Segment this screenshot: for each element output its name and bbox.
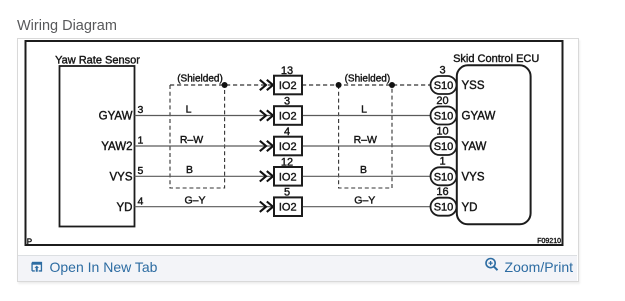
wire YAW right xyxy=(302,145,431,147)
svg-text:3: 3 xyxy=(439,64,445,76)
svg-text:3: 3 xyxy=(284,96,290,108)
svg-text:12: 12 xyxy=(281,156,293,168)
chevron arrows row 2 xyxy=(260,110,273,120)
svg-text:1: 1 xyxy=(439,156,445,168)
connector S10 row 5 xyxy=(431,186,457,216)
svg-text:R–W: R–W xyxy=(354,134,377,146)
connector S10 row 3 xyxy=(431,125,457,155)
page title xyxy=(17,18,117,35)
yaw rate sensor box xyxy=(60,66,135,227)
wire GYAW left xyxy=(135,115,275,117)
svg-text:10: 10 xyxy=(436,125,448,137)
svg-text:IO2: IO2 xyxy=(279,111,297,123)
svg-text:G–Y: G–Y xyxy=(184,195,205,207)
svg-text:4: 4 xyxy=(284,126,290,138)
wire YAW2 left xyxy=(135,145,275,147)
svg-text:B: B xyxy=(360,164,367,176)
wire shield row 1 dashed right segment xyxy=(302,84,431,86)
svg-text:(Shielded): (Shielded) xyxy=(177,74,223,85)
connector S10 row 4 xyxy=(431,156,457,186)
wire VYS right xyxy=(302,175,431,177)
connector IO2 row 1 xyxy=(274,65,302,94)
svg-text:YD: YD xyxy=(462,202,478,214)
connector IO2 row 4 xyxy=(274,156,302,185)
svg-text:4: 4 xyxy=(138,195,144,207)
wire shield row 1 dashed left segment xyxy=(170,84,274,86)
connector S10 row 2 xyxy=(431,95,457,125)
skid control ECU box xyxy=(457,65,531,224)
svg-text:S10: S10 xyxy=(434,141,454,153)
connector IO2 row 3 xyxy=(274,126,302,155)
svg-text:G–Y: G–Y xyxy=(354,195,375,207)
svg-text:Yaw Rate Sensor: Yaw Rate Sensor xyxy=(55,55,140,67)
svg-text:L: L xyxy=(361,103,367,115)
chevron arrows row 3 xyxy=(260,141,273,151)
junction dot right shield B xyxy=(389,82,395,88)
svg-text:GYAW: GYAW xyxy=(462,111,496,123)
chevron arrows row 5 xyxy=(260,202,273,212)
svg-text:IO2: IO2 xyxy=(279,80,297,92)
connector IO2 row 2 xyxy=(274,96,302,125)
svg-text:IO2: IO2 xyxy=(279,202,297,214)
svg-text:(Shielded): (Shielded) xyxy=(345,74,391,85)
shield dashed box left xyxy=(170,85,225,188)
wire VYS left xyxy=(135,175,275,177)
wire YD left xyxy=(135,206,275,208)
svg-text:R–W: R–W xyxy=(180,134,203,146)
svg-text:S10: S10 xyxy=(434,202,454,214)
svg-text:5: 5 xyxy=(284,187,290,199)
link Zoom/Print xyxy=(484,254,573,279)
connector S10 row 1 xyxy=(431,64,457,94)
svg-text:IO2: IO2 xyxy=(279,171,297,183)
svg-text:1: 1 xyxy=(138,135,144,147)
link Open In New Tab xyxy=(31,254,157,279)
junction dot left shield xyxy=(222,82,228,88)
svg-text:16: 16 xyxy=(436,186,448,198)
scanned diagram sheet border xyxy=(26,41,563,245)
svg-text:VYS: VYS xyxy=(109,172,132,184)
svg-text:GYAW: GYAW xyxy=(99,111,133,123)
connector IO2 row 5 xyxy=(274,187,302,216)
svg-text:YD: YD xyxy=(117,202,133,214)
junction dot right shield A xyxy=(336,82,342,88)
svg-text:F09210: F09210 xyxy=(537,238,561,245)
footer bar xyxy=(18,255,577,281)
svg-text:IO2: IO2 xyxy=(279,141,297,153)
svg-text:20: 20 xyxy=(436,95,448,107)
shield dashed box right xyxy=(339,85,392,188)
svg-text:YSS: YSS xyxy=(462,80,485,92)
svg-text:P: P xyxy=(27,238,32,247)
svg-text:L: L xyxy=(186,103,192,115)
svg-text:S10: S10 xyxy=(434,171,454,183)
chevron arrows row 4 xyxy=(260,171,273,181)
wire GYAW right xyxy=(302,115,431,117)
chevron arrows row 1 xyxy=(260,80,273,90)
svg-text:S10: S10 xyxy=(434,80,454,92)
wire YD right xyxy=(302,206,431,208)
svg-text:S10: S10 xyxy=(434,111,454,123)
svg-text:3: 3 xyxy=(138,104,144,116)
svg-text:5: 5 xyxy=(138,165,144,177)
svg-text:13: 13 xyxy=(281,65,293,77)
svg-text:YAW: YAW xyxy=(462,141,487,153)
svg-text:Skid Control ECU: Skid Control ECU xyxy=(453,53,539,65)
svg-text:YAW2: YAW2 xyxy=(101,141,132,153)
svg-text:B: B xyxy=(186,164,193,176)
panel frame xyxy=(17,38,579,282)
svg-text:VYS: VYS xyxy=(462,172,485,184)
